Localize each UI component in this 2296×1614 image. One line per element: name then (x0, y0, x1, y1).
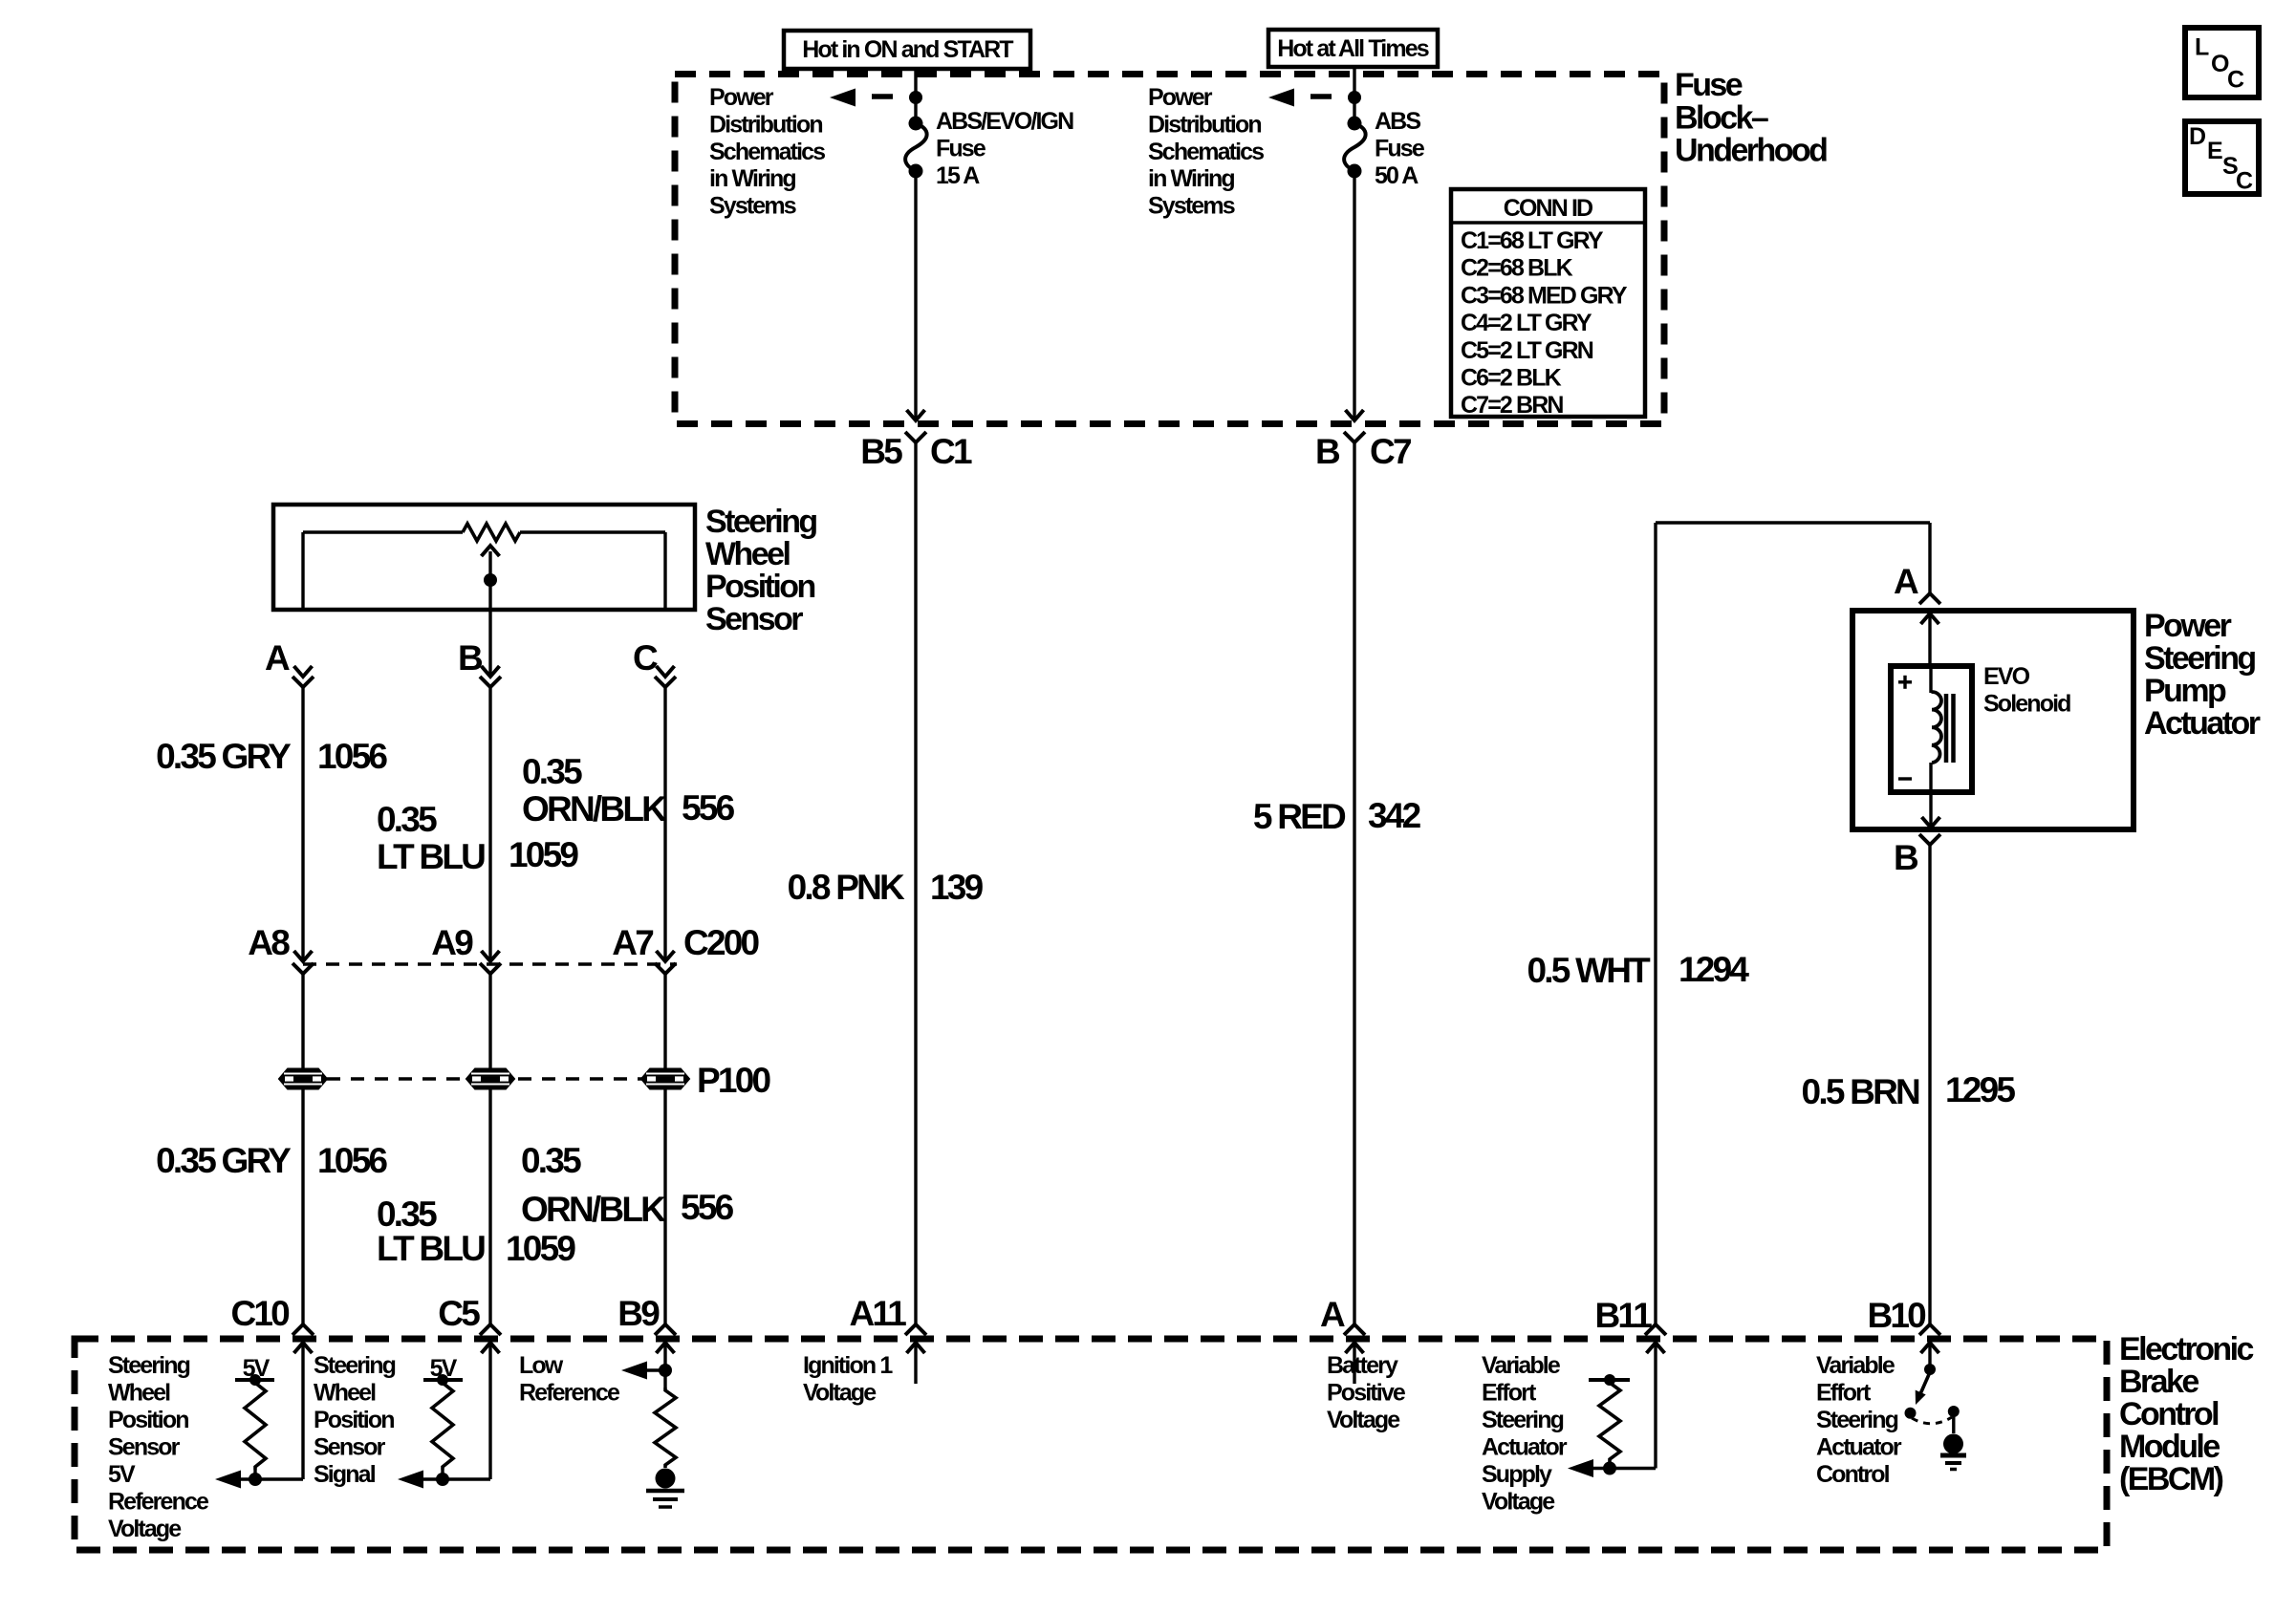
svg-text:Reference: Reference (519, 1380, 620, 1407)
svg-text:C1: C1 (930, 432, 972, 471)
svg-text:(EBCM): (EBCM) (2119, 1461, 2223, 1497)
svg-text:D: D (2189, 123, 2205, 150)
svg-text:0.35: 0.35 (377, 1194, 437, 1234)
svg-text:Schematics: Schematics (709, 139, 825, 165)
svg-text:Control: Control (2119, 1396, 2219, 1432)
svg-text:in Wiring: in Wiring (1148, 165, 1234, 192)
svg-text:CONN ID: CONN ID (1504, 195, 1592, 222)
svg-text:Steering: Steering (705, 504, 816, 540)
svg-text:Steering: Steering (1482, 1407, 1564, 1433)
svg-text:Pump: Pump (2144, 673, 2226, 709)
svg-text:Position: Position (705, 569, 814, 605)
svg-text:C4=2 LT GRY: C4=2 LT GRY (1461, 310, 1592, 336)
svg-text:B11: B11 (1594, 1296, 1652, 1335)
svg-text:B: B (1894, 838, 1918, 877)
svg-text:C5=2 LT GRN: C5=2 LT GRN (1461, 337, 1593, 364)
svg-text:0.35: 0.35 (522, 752, 582, 791)
svg-text:Position: Position (108, 1407, 188, 1433)
svg-text:1294: 1294 (1679, 950, 1749, 989)
svg-text:Sensor: Sensor (108, 1434, 181, 1461)
svg-text:Systems: Systems (1148, 193, 1235, 220)
svg-text:15 A: 15 A (936, 162, 980, 189)
svg-text:LT BLU: LT BLU (377, 1229, 485, 1268)
svg-text:Hot at All Times: Hot at All Times (1277, 35, 1429, 62)
svg-text:C200: C200 (683, 923, 760, 962)
svg-text:ABS: ABS (1375, 108, 1420, 135)
svg-text:Positive: Positive (1327, 1380, 1406, 1407)
svg-text:Signal: Signal (314, 1461, 376, 1488)
svg-text:Sensor: Sensor (314, 1434, 386, 1461)
svg-text:0.5 WHT: 0.5 WHT (1527, 951, 1651, 990)
svg-text:Voltage: Voltage (803, 1380, 877, 1407)
svg-text:Fuse: Fuse (1675, 67, 1743, 103)
svg-text:ORN/BLK: ORN/BLK (521, 1190, 666, 1229)
svg-text:B: B (458, 638, 483, 678)
svg-text:Steering: Steering (1816, 1407, 1898, 1433)
svg-text:Hot in ON and START: Hot in ON and START (802, 36, 1013, 63)
svg-text:Voltage: Voltage (1327, 1407, 1400, 1433)
svg-text:C3=68 MED GRY: C3=68 MED GRY (1461, 282, 1628, 309)
svg-text:Actuator: Actuator (1482, 1434, 1568, 1461)
svg-text:Position: Position (314, 1407, 394, 1433)
svg-text:1056: 1056 (317, 1141, 387, 1180)
svg-text:A11: A11 (849, 1294, 906, 1333)
svg-text:Voltage: Voltage (1482, 1489, 1555, 1516)
svg-text:B: B (1315, 432, 1340, 471)
svg-text:5 RED: 5 RED (1253, 797, 1346, 836)
svg-text:P100: P100 (697, 1061, 771, 1100)
svg-text:Steering: Steering (314, 1352, 396, 1379)
svg-text:A: A (1320, 1295, 1345, 1334)
svg-text:A7: A7 (612, 923, 653, 962)
svg-text:Supply: Supply (1482, 1461, 1552, 1488)
svg-text:Underhood: Underhood (1675, 133, 1827, 169)
svg-text:C10: C10 (230, 1294, 290, 1333)
svg-text:Battery: Battery (1327, 1352, 1398, 1379)
svg-text:139: 139 (930, 868, 984, 907)
svg-text:B10: B10 (1867, 1296, 1926, 1335)
svg-text:Sensor: Sensor (705, 601, 803, 637)
svg-text:B9: B9 (617, 1294, 660, 1333)
svg-text:Steering: Steering (108, 1352, 190, 1379)
svg-text:0.35 GRY: 0.35 GRY (156, 1141, 292, 1180)
svg-text:Effort: Effort (1816, 1380, 1872, 1407)
svg-text:556: 556 (682, 788, 735, 828)
svg-text:A: A (1894, 562, 1918, 601)
svg-text:Module: Module (2119, 1429, 2220, 1465)
svg-text:0.5 BRN: 0.5 BRN (1802, 1072, 1920, 1111)
svg-text:Distribution: Distribution (1148, 111, 1261, 138)
svg-text:Fuse: Fuse (936, 135, 986, 161)
svg-text:Power: Power (2144, 608, 2232, 644)
svg-text:0.35: 0.35 (377, 800, 437, 839)
svg-text:Power: Power (1148, 84, 1213, 111)
svg-text:Variable: Variable (1482, 1352, 1561, 1379)
svg-text:Solenoid: Solenoid (1983, 690, 2070, 717)
svg-text:Electronic: Electronic (2119, 1331, 2254, 1367)
svg-text:Ignition 1: Ignition 1 (803, 1352, 893, 1379)
svg-text:C: C (2227, 67, 2244, 94)
svg-text:Reference: Reference (108, 1489, 209, 1516)
svg-text:C7=2 BRN: C7=2 BRN (1461, 392, 1563, 419)
svg-text:E: E (2207, 138, 2222, 164)
svg-text:C1=68 LT GRY: C1=68 LT GRY (1461, 227, 1604, 254)
svg-text:ABS/EVO/IGN: ABS/EVO/IGN (936, 108, 1073, 135)
svg-text:LT BLU: LT BLU (377, 837, 485, 876)
svg-text:50 A: 50 A (1375, 162, 1419, 189)
svg-text:0.35 GRY: 0.35 GRY (156, 737, 292, 776)
svg-text:Brake: Brake (2119, 1364, 2199, 1400)
svg-text:556: 556 (681, 1188, 734, 1227)
svg-text:C5: C5 (438, 1294, 480, 1333)
svg-text:C2=68 BLK: C2=68 BLK (1461, 255, 1573, 282)
svg-text:B5: B5 (860, 432, 902, 471)
svg-text:Effort: Effort (1482, 1380, 1537, 1407)
svg-text:in Wiring: in Wiring (709, 165, 795, 192)
svg-text:5V: 5V (108, 1461, 136, 1488)
svg-text:1056: 1056 (317, 737, 387, 776)
svg-text:A9: A9 (431, 923, 473, 962)
svg-text:1059: 1059 (506, 1229, 575, 1268)
svg-text:A: A (265, 638, 290, 678)
svg-text:342: 342 (1368, 796, 1421, 835)
svg-text:Schematics: Schematics (1148, 139, 1264, 165)
svg-text:Steering: Steering (2144, 640, 2255, 677)
svg-text:1295: 1295 (1945, 1070, 2015, 1109)
svg-text:1059: 1059 (509, 835, 578, 874)
svg-text:Wheel: Wheel (108, 1380, 170, 1407)
svg-text:L: L (2195, 34, 2209, 61)
svg-text:ORN/BLK: ORN/BLK (522, 789, 667, 829)
svg-text:Systems: Systems (709, 193, 796, 220)
svg-text:C: C (633, 638, 658, 678)
svg-text:Voltage: Voltage (108, 1516, 182, 1542)
svg-text:Actuator: Actuator (2144, 705, 2261, 742)
svg-text:C6=2 BLK: C6=2 BLK (1461, 365, 1562, 392)
svg-text:0.35: 0.35 (521, 1141, 581, 1180)
svg-text:Control: Control (1816, 1461, 1890, 1488)
svg-text:Variable: Variable (1816, 1352, 1895, 1379)
svg-text:Fuse: Fuse (1375, 135, 1425, 161)
svg-text:A8: A8 (248, 923, 290, 962)
svg-text:Wheel: Wheel (314, 1380, 376, 1407)
svg-text:Low: Low (519, 1352, 564, 1379)
svg-text:Actuator: Actuator (1816, 1434, 1902, 1461)
svg-text:Power: Power (709, 84, 774, 111)
svg-text:Wheel: Wheel (705, 536, 790, 572)
svg-text:EVO: EVO (1983, 663, 2030, 690)
svg-text:0.8 PNK: 0.8 PNK (788, 868, 905, 907)
svg-text:Distribution: Distribution (709, 111, 822, 138)
svg-text:C: C (2236, 168, 2253, 195)
svg-text:Block–: Block– (1675, 99, 1768, 136)
svg-text:C7: C7 (1370, 432, 1411, 471)
